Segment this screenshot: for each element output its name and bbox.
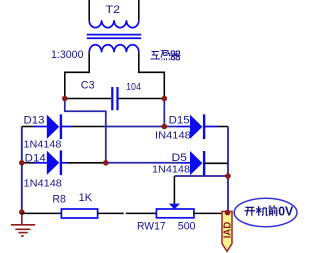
wire row2 to D5 [104, 162, 181, 164]
right rail wire [227, 127, 229, 214]
transformer T2 primary lead left [88, 0, 90, 20]
pin stub D13 anode [34, 126, 47, 128]
junction dot row1 at D15 anode [162, 124, 168, 130]
junction dot bottom left [19, 209, 25, 215]
transformer secondary lead left (steps down to C3 node) [65, 52, 89, 98]
pin stub D14 anode [34, 162, 47, 164]
wire ground node to R8 [22, 212, 62, 214]
junction dot bottom right at IAD [225, 210, 231, 216]
diode D13 [47, 114, 61, 139]
transformer T2 core line 2 [87, 37, 141, 39]
svg-text:IN4148: IN4148 [155, 130, 191, 142]
junction dot C3 right [162, 96, 168, 102]
diode D15 [190, 114, 204, 139]
junction dot row2 center [103, 160, 109, 166]
wire row1 rail to D13 [22, 126, 34, 128]
svg-text:D15: D15 [169, 114, 190, 126]
svg-text:1N4148: 1N4148 [24, 139, 62, 151]
wire from C3 left node stepping down to row2 [65, 99, 106, 163]
svg-text:1N4148: 1N4148 [24, 177, 63, 189]
wire row2 rail to D14 [22, 162, 34, 164]
svg-text:1K: 1K [79, 192, 93, 204]
wire D5 cathode to right rail [204, 162, 228, 164]
transformer T2 bottom winding [89, 45, 139, 52]
wire row1 to right rail [217, 126, 228, 128]
svg-text:0V: 0V [278, 203, 293, 218]
junction dot C3 left [62, 96, 68, 102]
pin stub D14 cathode [61, 162, 67, 164]
resistor R8 [61, 209, 97, 218]
pin stub D15 anode [177, 126, 191, 128]
pin stub D5 anode [180, 162, 190, 164]
transformer secondary lead right (steps down to node) [139, 52, 165, 98]
junction dot row2 left rail [19, 160, 25, 166]
wire wiper of RW17 to right rail [174, 175, 228, 177]
wire R8 to RW17 [98, 212, 157, 214]
wire wiper stem [173, 176, 175, 204]
callout ellipse 开机前0V [234, 198, 297, 226]
label 互感器 (hand drawn glyphs) [151, 50, 181, 60]
wire C3 right [119, 98, 165, 100]
junction dot wiper wire at right rail [225, 173, 231, 179]
svg-text:1N4148: 1N4148 [152, 163, 190, 175]
pin stub D13 cathode [61, 126, 72, 128]
pin stub D15 cathode [204, 126, 217, 128]
svg-text:500: 500 [178, 220, 196, 232]
potentiometer RW17 body [156, 209, 194, 218]
svg-text:D13: D13 [24, 114, 45, 126]
capacitor C3 plates [112, 87, 117, 110]
transformer T2 primary lead right [138, 0, 140, 20]
net label flag IAD [222, 211, 234, 251]
RW17 wiper arrow [169, 204, 180, 210]
transformer T2 top winding [89, 20, 139, 27]
wire row1 to D15 node [104, 126, 177, 128]
svg-text:C3: C3 [81, 80, 95, 92]
wire row1 middle black [72, 126, 104, 128]
svg-text:T2: T2 [106, 4, 121, 16]
hand drawn 前 [268, 205, 277, 216]
wire from C3 right node down to row1 [163, 99, 165, 127]
diode D14 [47, 150, 61, 175]
svg-text:R8: R8 [52, 193, 66, 205]
svg-text:RW17: RW17 [137, 220, 166, 232]
left rail wire [21, 127, 23, 214]
transformer T2 core line 1 [87, 34, 141, 36]
ground symbol [11, 213, 35, 236]
svg-text:104: 104 [126, 81, 141, 93]
diode D5 [190, 151, 204, 176]
wire C3 left [65, 98, 111, 100]
hand drawn 开 [245, 205, 278, 216]
hand drawn 机 [256, 206, 268, 216]
wire RW17 to right rail node [194, 212, 228, 214]
svg-text:D5: D5 [172, 152, 188, 164]
svg-text:1:3000: 1:3000 [51, 49, 84, 61]
svg-text:IAD: IAD [223, 222, 234, 239]
wire row2 middle black [67, 162, 104, 164]
